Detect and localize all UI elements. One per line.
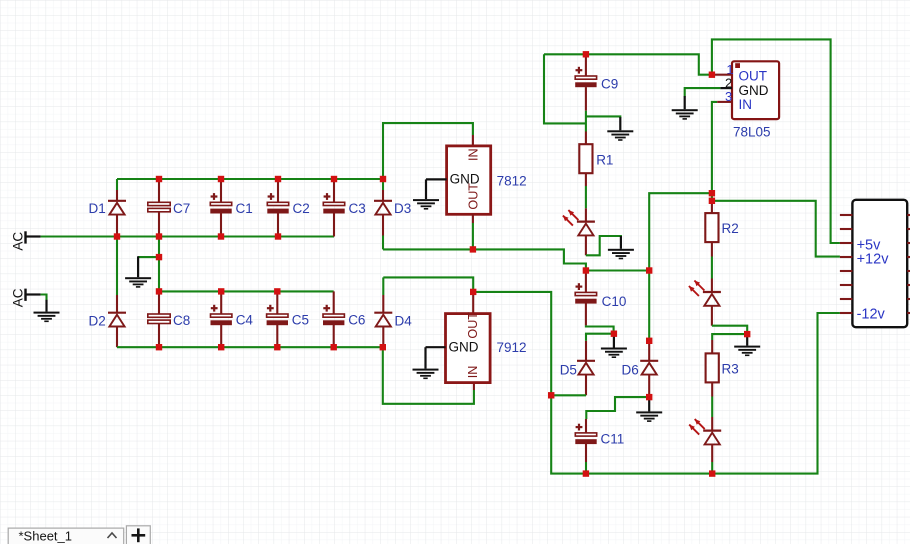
resistor R2 (705, 213, 738, 242)
wire D4 to 7912 OUT (383, 277, 473, 292)
wire D6 anode to C11 (586, 397, 649, 419)
junction +12 at D6 column (646, 267, 652, 273)
LED LED2 light arrows (689, 281, 705, 297)
svg-text:C5: C5 (292, 313, 309, 328)
wire D3 top lead (382, 179, 384, 190)
node AC1 label (11, 232, 26, 251)
junction +12 at 78L05 IN (709, 190, 715, 196)
op-amp/regulator U1 7812 body (447, 146, 491, 214)
connector J1 right pin stubs (907, 215, 910, 313)
junction D4 anode node (380, 344, 386, 350)
svg-text:-12v: -12v (857, 307, 886, 323)
connector J1 body (852, 200, 907, 327)
connector J1 left pin stubs (840, 215, 853, 313)
capacitor C1 lead stubs (220, 179, 222, 237)
junction top rail C1 (218, 176, 224, 182)
regulator 78L05 GND pin stub (720, 87, 732, 89)
LED LED3 lead stubs (711, 417, 713, 462)
node AC2 input port pin (26, 289, 41, 301)
wire AC2 to ground (41, 295, 47, 301)
junction -raw rail C5 (274, 344, 280, 350)
svg-text:C10: C10 (602, 294, 627, 309)
wire 7812 OUT down (472, 223, 474, 249)
regulator 7812 OUT pin stub (472, 214, 474, 223)
regulator 7912 pin name GND (449, 340, 479, 355)
diode D1 (89, 201, 127, 216)
wire C9 bottom node (585, 111, 587, 132)
junction rail D1 (114, 233, 120, 239)
svg-text:C3: C3 (349, 201, 366, 216)
capacitor C7 lead stubs (158, 179, 160, 237)
wire bottom -12 run (586, 313, 840, 474)
resistor R2 lead stubs (711, 201, 713, 257)
junction C9 top (583, 51, 589, 57)
junction rail C2 (275, 233, 281, 239)
svg-text:OUT: OUT (739, 69, 768, 84)
regulator 78L05 pin number 1 (726, 62, 733, 77)
diode D6 (622, 361, 659, 378)
wire C9 top rail (544, 54, 712, 74)
svg-text:R1: R1 (596, 153, 613, 168)
net label +12v (857, 252, 890, 268)
svg-text:IN: IN (739, 97, 753, 112)
diode D3 lead stubs (382, 190, 384, 236)
svg-text:C8: C8 (173, 313, 190, 328)
capacitor C3 (323, 193, 365, 216)
junction D6 anode (646, 394, 652, 400)
svg-text:AC: AC (11, 232, 26, 251)
svg-text:D6: D6 (622, 363, 639, 378)
regulator U3 78L05 body (732, 61, 779, 119)
ground at LED1 (608, 236, 634, 259)
wire +12 raw run (383, 249, 586, 270)
svg-text:R2: R2 (722, 221, 739, 236)
wire C9 left drop (544, 54, 586, 123)
wire junction link (711, 193, 713, 201)
wire R3 top link (712, 334, 747, 340)
LED LED1 (577, 222, 595, 236)
wire LED1 to ground (586, 236, 621, 255)
wire LED2 to ground (712, 326, 747, 334)
junction gnd rail C5 (274, 288, 280, 294)
capacitor C9 (575, 67, 618, 92)
wire to C9 ground (586, 116, 620, 118)
regulator value label 7912 (497, 340, 527, 355)
junction gnd rail C4 (218, 288, 224, 294)
svg-text:7912: 7912 (497, 340, 527, 355)
wire 78L05 IN drop (712, 102, 717, 193)
svg-text:R3: R3 (722, 362, 739, 377)
svg-text:OUT: OUT (466, 312, 480, 339)
capacitor C7 (148, 201, 190, 216)
junction 78L05 OUT (709, 72, 715, 78)
capacitor C10 (575, 283, 626, 309)
capacitor C4 lead stubs (220, 291, 222, 347)
svg-text:D4: D4 (395, 314, 413, 329)
junction top rail C3 (331, 176, 337, 182)
resistor R3 lead stubs (711, 340, 713, 397)
wire 78L05 GND to ground (685, 88, 721, 96)
wire to left ground (138, 256, 159, 258)
junction C11 bottom (583, 470, 589, 476)
ground at D6 (636, 397, 662, 422)
capacitor C5 lead stubs (276, 291, 278, 347)
junction D6 cathode (646, 338, 652, 344)
regulator 7812 GND pin wire (426, 178, 447, 180)
wire D6 top drop (648, 271, 650, 341)
capacitor C11 (575, 424, 624, 447)
regulator 7812 pin name IN (466, 148, 480, 161)
wire top +raw rail (117, 178, 383, 180)
ground at AC2 (34, 300, 60, 322)
wire -raw to 7912 IN (383, 347, 474, 404)
net label -12v (857, 307, 886, 323)
wire +12 node to D6 column (586, 269, 649, 271)
regulator 7912 pin name OUT (466, 312, 480, 339)
wire +12 riser (649, 193, 712, 270)
wire bottom gnd rail (159, 290, 334, 292)
ground at LED2/R3 (734, 334, 760, 356)
junction top rail C7 (156, 176, 162, 182)
junction -raw rail C4 (218, 344, 224, 350)
svg-text:7812: 7812 (497, 174, 527, 189)
regulator 78L05 IN pin stub (717, 101, 732, 103)
capacitor C8 lead stubs (158, 291, 160, 347)
svg-text:C1: C1 (236, 201, 253, 216)
sheet tab Sheet_1 (8, 528, 124, 545)
wire D5 top (586, 334, 614, 341)
regulator 78L05 pin number 3 (725, 89, 732, 104)
wire 78L05 OUT to +5v (712, 39, 840, 243)
svg-text:C11: C11 (601, 432, 625, 447)
capacitor C11 lead stubs (585, 419, 587, 462)
svg-text:C9: C9 (601, 77, 618, 92)
capacitor C2 lead stubs (277, 179, 279, 237)
svg-text:AC: AC (11, 288, 26, 307)
wire D5 anode left (551, 394, 586, 396)
regulator U7812 IN pin stub (472, 135, 474, 146)
wire LED3 bottom (711, 462, 713, 474)
regulator 78L05 pin name GND (739, 83, 769, 98)
junction -raw rail C6 (331, 344, 337, 350)
svg-text:GND: GND (449, 340, 479, 355)
diode D4 (374, 313, 412, 329)
regulator 7812 pin name GND (450, 172, 480, 187)
junction top rail D3 (380, 176, 386, 182)
regulator 7912 IN pin stub (473, 383, 475, 390)
junction LED2 ground (744, 331, 750, 337)
svg-text:D3: D3 (394, 201, 411, 216)
junction mid ground (611, 331, 617, 337)
wire C7-gnd link (158, 237, 160, 292)
regulator 7912 GND pin wire (426, 346, 446, 348)
junction gnd node left (156, 254, 162, 260)
regulator 78L05 OUT pin stub (714, 74, 732, 76)
capacitor C6 (323, 305, 365, 328)
capacitor C4 (211, 305, 254, 328)
capacitor C6 lead stubs (333, 291, 335, 347)
diode D4 lead stubs (382, 295, 384, 347)
wire R2 to LED2 (711, 257, 713, 279)
ground at 7812 (413, 179, 439, 209)
wire top rail to 7812 IN (383, 123, 473, 179)
wire C11 bottom (585, 462, 587, 474)
svg-text:IN: IN (466, 148, 480, 161)
regulator 78L05 pin name OUT (739, 69, 768, 84)
svg-text:3: 3 (725, 89, 732, 104)
diode D6 lead stubs (648, 341, 650, 397)
junction rail C1 (218, 233, 224, 239)
junction LED3 bottom (709, 470, 715, 476)
junction -12 left node (548, 392, 554, 398)
wire D4 top lead (382, 277, 384, 295)
diode D5 (560, 361, 595, 378)
wire R3 to LED3 (711, 397, 713, 418)
node AC1 input port pin (26, 231, 41, 243)
wire D3 anode down (382, 236, 384, 250)
junction +12 at R2 (709, 198, 715, 204)
capacitor C5 (267, 305, 309, 328)
svg-text:C6: C6 (348, 313, 365, 328)
svg-text:78L05: 78L05 (733, 124, 771, 139)
diode D3 (374, 201, 411, 216)
junction 7812 OUT node (470, 246, 476, 252)
svg-text:OUT: OUT (466, 183, 480, 210)
diode D1 lead stubs (116, 190, 118, 237)
diode D5 lead stubs (585, 341, 587, 395)
capacitor C10 lead stubs (585, 271, 587, 326)
wire +12 to connector (712, 201, 840, 257)
junction -raw rail C8 (156, 344, 162, 350)
svg-text:C4: C4 (236, 313, 254, 328)
wire -12 raw run (473, 292, 551, 395)
LED LED3 light arrows (689, 419, 705, 435)
regulator 78L05 pin name IN (739, 97, 753, 112)
LED LED1 lead stubs (585, 208, 587, 255)
regulator 78L05 pin number 2 (725, 76, 732, 91)
wire C10 to mid ground (586, 325, 614, 333)
junction gnd rail at C8 (156, 288, 162, 294)
capacitor C8 (148, 313, 190, 328)
ground at 78L05 (672, 96, 698, 120)
svg-text:+12v: +12v (857, 252, 890, 268)
svg-text:IN: IN (466, 366, 480, 379)
junction 7912 OUT node (470, 289, 476, 295)
resistor R1 (579, 144, 613, 173)
wire AC1 rail (41, 235, 334, 237)
capacitor C3 lead stubs (333, 179, 335, 237)
ground at 7912 (413, 347, 439, 379)
wire D1-D2 link (116, 237, 118, 296)
capacitor C2 (267, 193, 309, 216)
LED LED2 (703, 292, 721, 306)
ground at C9 (607, 117, 633, 141)
capacitor C9 lead stubs (585, 54, 587, 110)
junction rail C7 (156, 233, 162, 239)
capacitor C1 (210, 193, 252, 216)
add-sheet plus button (126, 526, 150, 545)
svg-text:*Sheet_1: *Sheet_1 (19, 529, 73, 544)
LED LED1 light arrows (563, 210, 579, 226)
resistor R3 (706, 353, 739, 382)
diode D2 lead stubs (116, 295, 118, 347)
wire bottom -raw rail (117, 346, 383, 348)
ground at C10/D5 (601, 334, 627, 358)
ground at C8 rail (125, 256, 151, 287)
svg-text:C2: C2 (293, 201, 310, 216)
svg-text:GND: GND (739, 83, 769, 98)
wire D1 top lead (116, 179, 118, 190)
wire -12 down to bottom rail (551, 395, 586, 473)
regulator 7812 pin name OUT (466, 183, 480, 210)
regulator value label 7812 (497, 174, 527, 189)
junction +12 at C10 (583, 267, 589, 273)
junction top rail C2 (275, 176, 281, 182)
svg-text:D5: D5 (560, 363, 577, 378)
wire R1 to LED1 (585, 186, 587, 208)
svg-text:D2: D2 (89, 314, 106, 329)
node AC2 label (11, 288, 26, 307)
regulator U2 7912 body (446, 314, 491, 383)
diode D2 (89, 313, 127, 329)
svg-text:D1: D1 (89, 201, 106, 216)
svg-text:C7: C7 (173, 201, 190, 216)
regulator 7912 pin name IN (466, 366, 480, 379)
resistor R1 lead stubs (585, 132, 587, 187)
regulator value label 78L05 (733, 124, 771, 139)
LED LED3 (703, 431, 721, 445)
net label +5v (857, 237, 882, 253)
regulator 7912 OUT pin stub (472, 295, 474, 314)
LED LED2 lead stubs (711, 279, 713, 326)
